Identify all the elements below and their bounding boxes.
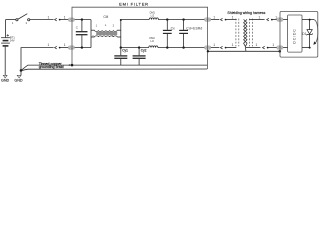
connector J5 pin 1 (harness right, top) xyxy=(258,15,277,21)
feedthrough capacitor FT6 (load box entry, bottom wire) xyxy=(277,46,283,50)
svg-text:Cx: Cx xyxy=(171,26,175,30)
svg-text:Cy1: Cy1 xyxy=(122,48,128,52)
wire feedthrough FT1 to choke xyxy=(75,19,91,21)
harness shield dashed wall right xyxy=(250,19,253,47)
node: Cd top junction xyxy=(182,18,184,20)
choke pin numbers 1 2 3 4 xyxy=(92,23,115,38)
wire choke to DM2 xyxy=(121,47,149,49)
connector J3 pin 1 (harness left, top) xyxy=(213,15,236,21)
wire FT4 to connector J4 xyxy=(211,47,220,49)
wire DC/DC output top xyxy=(302,19,314,21)
inductor DM2 L/2 xyxy=(149,37,158,48)
connector J6 pin 1 (harness right, bottom) xyxy=(255,43,276,49)
svg-text:D1: D1 xyxy=(302,32,306,36)
node: Cx bottom junction xyxy=(166,46,168,48)
wire switch to connector J1 xyxy=(30,19,54,21)
switch S1 xyxy=(6,14,30,21)
svg-text:GND: GND xyxy=(14,79,23,83)
node: Cx top junction xyxy=(166,18,168,20)
node: capacitor C bottom junction xyxy=(81,46,83,48)
capacitor C xyxy=(76,20,88,48)
connector J4 pin 1 (harness left, bottom) xyxy=(213,43,236,49)
battery BT1 xyxy=(1,20,10,76)
svg-text:1: 1 xyxy=(64,15,66,19)
diode D1 (TVS) xyxy=(306,19,312,49)
common-mode choke CM bottom winding (pins 3-4) xyxy=(91,36,121,37)
node: bond at load box xyxy=(279,50,282,53)
node: Cy2 junction xyxy=(138,46,140,48)
common-mode choke CM top winding (pins 1-2) xyxy=(91,20,121,48)
wire DM2 to feedthrough FT4 xyxy=(158,47,205,49)
svg-text:1: 1 xyxy=(275,15,277,19)
choke core xyxy=(96,32,117,34)
svg-text:1: 1 xyxy=(258,15,260,19)
svg-text:1: 1 xyxy=(47,15,49,19)
wire DC/DC output bottom xyxy=(302,47,311,49)
capacitor Cy2 xyxy=(133,48,146,66)
svg-text:GND: GND xyxy=(1,79,10,83)
EMI filter enclosure xyxy=(72,7,208,69)
node: capacitor C top junction xyxy=(81,18,83,20)
svg-text:1: 1 xyxy=(213,15,215,19)
svg-text:1: 1 xyxy=(255,43,257,47)
capacitor Cy1 xyxy=(114,48,127,66)
svg-text:L/2: L/2 xyxy=(151,15,155,18)
capacitor Cd+ESRd xyxy=(179,20,188,48)
twisted pair symbol xyxy=(244,19,247,51)
node: choke pin2 to top wire xyxy=(120,19,122,21)
wire FT5 to DC/DC input xyxy=(283,19,288,21)
svg-text:grounding braid: grounding braid xyxy=(39,65,64,69)
wire FT3 to connector J3 xyxy=(211,19,220,21)
node: bond at EMI box xyxy=(207,50,209,52)
output load arc xyxy=(314,20,318,44)
connector J1 pin 1 (top wire) xyxy=(47,15,68,21)
node: Cy1 junction xyxy=(120,46,122,48)
wire choke to DM1 xyxy=(121,19,149,21)
harness shield dashed wall left xyxy=(236,19,239,47)
svg-text:1: 1 xyxy=(232,15,234,19)
feedthrough capacitor FT4 (EMI box right exit, bottom wire) xyxy=(204,46,210,50)
wire FT6 to DC/DC input return xyxy=(283,47,288,49)
svg-text:Cy2: Cy2 xyxy=(141,48,147,52)
svg-text:L/2: L/2 xyxy=(150,40,154,43)
load enclosure box xyxy=(280,12,318,58)
feedthrough capacitor FT1 (EMI box left entry, top wire) xyxy=(68,18,74,22)
label BT1 24V xyxy=(10,36,16,43)
DC/DC converter box U1 xyxy=(288,15,302,52)
svg-text:DC/DC: DC/DC xyxy=(293,28,297,43)
feedthrough capacitor FT2 (EMI box left entry, bottom wire) xyxy=(68,46,74,50)
capacitor Cx xyxy=(163,20,172,48)
shield bond wire (EMI box to load box chassis) xyxy=(208,50,280,52)
braid label arrowhead xyxy=(69,64,71,66)
grounding braid line B xyxy=(21,69,207,71)
wire harness right bottom to connector J6 xyxy=(246,47,261,49)
svg-text:EMI FILTER: EMI FILTER xyxy=(119,1,149,6)
node: Cd bottom junction xyxy=(182,46,184,48)
feedthrough capacitor FT5 (load box entry, top wire) xyxy=(277,18,283,22)
ground GND2 (chassis braid ground) xyxy=(14,70,23,82)
svg-text:CM: CM xyxy=(103,15,108,19)
connector J2 pin 1 (bottom wire) xyxy=(47,43,68,49)
svg-text:1: 1 xyxy=(213,43,215,47)
svg-text:1: 1 xyxy=(272,43,274,47)
node: braid to GND2 junction xyxy=(20,69,23,72)
inductor DM1 L/2 xyxy=(149,12,158,20)
feedthrough capacitor FT3 (EMI box right exit, top wire) xyxy=(204,18,210,22)
node: braid to EMI box junction xyxy=(71,64,74,67)
svg-text:Cd+ESRd: Cd+ESRd xyxy=(186,27,202,31)
label Tinned copper grounding braid xyxy=(39,62,64,69)
wire harness right top to connector J5 xyxy=(249,19,264,21)
svg-text:1: 1 xyxy=(64,43,66,47)
wire DM1 to feedthrough FT3 xyxy=(158,19,204,21)
svg-text:1: 1 xyxy=(47,43,49,47)
wire bottom: return corner to connector xyxy=(21,48,54,71)
svg-text:1: 1 xyxy=(232,43,234,47)
wire feedthrough FT2 to choke bottom xyxy=(75,47,91,49)
svg-text:24V: 24V xyxy=(10,39,15,43)
grounding braid line A xyxy=(21,65,207,70)
switch terminal marks xyxy=(12,21,28,25)
ground GND1 (battery return) xyxy=(1,75,10,82)
